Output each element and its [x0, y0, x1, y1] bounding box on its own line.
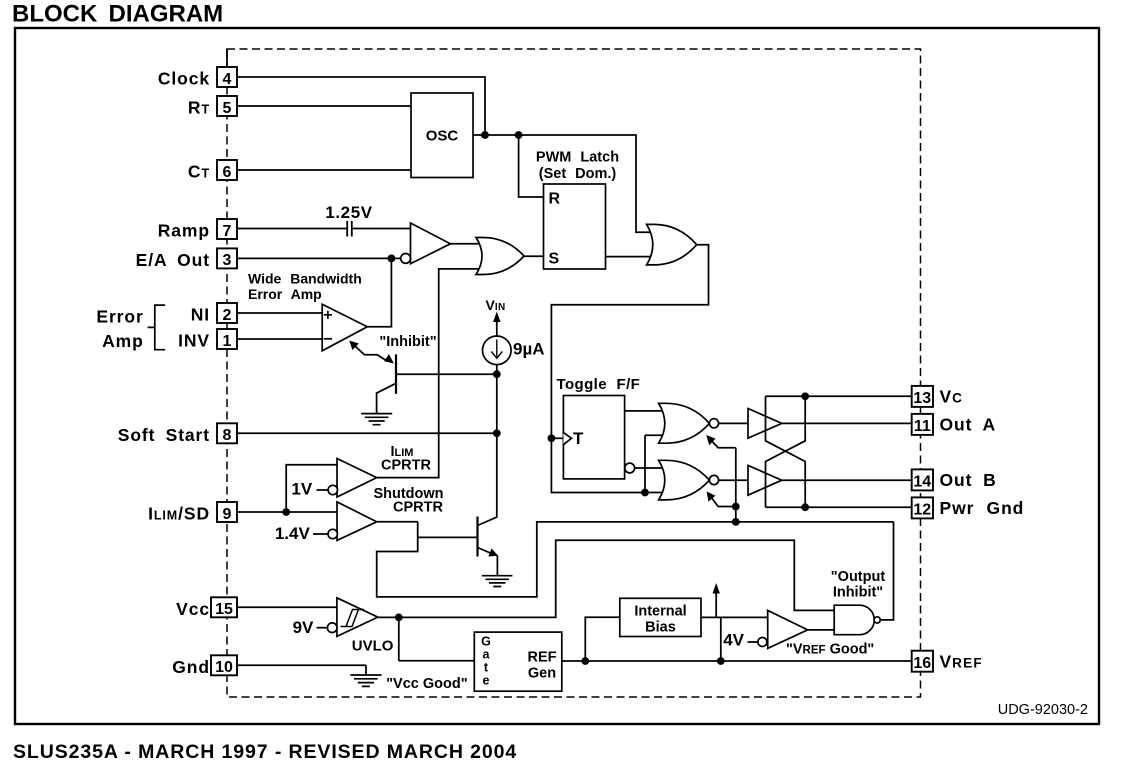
svg-text:Bias: Bias — [645, 620, 676, 636]
svg-text:4: 4 — [223, 71, 232, 88]
svg-text:e: e — [483, 674, 490, 688]
svg-text:Inhibit": Inhibit" — [833, 585, 883, 601]
svg-text:9V: 9V — [293, 618, 314, 637]
svg-text:Amp: Amp — [102, 331, 144, 351]
svg-text:9: 9 — [223, 506, 232, 523]
svg-text:1: 1 — [223, 333, 232, 350]
svg-text:CT: CT — [188, 162, 210, 182]
svg-text:NI: NI — [191, 305, 210, 325]
svg-text:1V: 1V — [291, 480, 312, 499]
svg-text:INV: INV — [178, 331, 210, 351]
svg-text:REF: REF — [528, 650, 557, 666]
svg-text:13: 13 — [913, 390, 931, 407]
svg-text:UVLO: UVLO — [352, 638, 394, 655]
svg-text:Out B: Out B — [940, 470, 997, 490]
svg-text:G: G — [481, 635, 491, 649]
svg-text:UDG-92030-2: UDG-92030-2 — [998, 702, 1088, 718]
svg-text:SLUS235A - MARCH 1997 - REVISE: SLUS235A - MARCH 1997 - REVISED MARCH 20… — [13, 741, 517, 763]
svg-text:T: T — [573, 429, 584, 448]
svg-text:6: 6 — [223, 164, 232, 181]
svg-text:E/A Out: E/A Out — [136, 250, 210, 270]
svg-text:R: R — [549, 191, 561, 208]
svg-text:"VREF Good": "VREF Good" — [786, 642, 874, 658]
svg-text:VC: VC — [940, 387, 963, 407]
svg-text:CPRTR: CPRTR — [381, 458, 431, 474]
svg-text:CPRTR: CPRTR — [393, 500, 443, 516]
svg-text:15: 15 — [215, 601, 233, 618]
svg-text:Soft Start: Soft Start — [118, 425, 210, 445]
svg-text:Error: Error — [96, 307, 143, 327]
svg-text:Toggle F/F: Toggle F/F — [557, 376, 641, 393]
svg-text:OSC: OSC — [426, 128, 459, 145]
svg-text:Pwr Gnd: Pwr Gnd — [940, 498, 1025, 518]
svg-text:Internal: Internal — [634, 604, 686, 620]
svg-text:Clock: Clock — [158, 69, 210, 89]
svg-text:RT: RT — [188, 98, 210, 118]
svg-text:(Set Dom.): (Set Dom.) — [539, 166, 617, 182]
svg-text:Vcc: Vcc — [176, 599, 210, 619]
svg-text:"Inhibit": "Inhibit" — [379, 334, 436, 350]
svg-text:1.4V: 1.4V — [275, 524, 311, 543]
svg-text:3: 3 — [223, 252, 232, 269]
svg-text:BLOCK DIAGRAM: BLOCK DIAGRAM — [12, 1, 223, 28]
svg-text:5: 5 — [223, 100, 232, 117]
svg-text:1.25V: 1.25V — [325, 203, 372, 222]
svg-text:12: 12 — [913, 502, 931, 519]
svg-text:VREF: VREF — [940, 652, 983, 672]
svg-text:S: S — [549, 251, 560, 268]
svg-text:ILIM/SD: ILIM/SD — [148, 504, 210, 524]
svg-text:a: a — [483, 648, 491, 662]
svg-text:Ramp: Ramp — [158, 221, 210, 241]
svg-text:2: 2 — [223, 307, 232, 324]
svg-text:16: 16 — [913, 655, 931, 672]
svg-text:Out A: Out A — [940, 415, 996, 435]
svg-text:Wide Bandwidth: Wide Bandwidth — [248, 271, 362, 287]
svg-text:11: 11 — [914, 418, 931, 435]
svg-text:VIN: VIN — [486, 297, 506, 313]
svg-text:9µA: 9µA — [513, 340, 545, 359]
svg-text:PWM Latch: PWM Latch — [536, 150, 619, 166]
svg-text:4V: 4V — [723, 631, 744, 650]
svg-text:14: 14 — [913, 474, 931, 491]
svg-text:Error Amp: Error Amp — [248, 286, 322, 302]
svg-text:10: 10 — [215, 659, 233, 676]
svg-text:Gnd: Gnd — [172, 657, 210, 677]
svg-text:Gen: Gen — [528, 666, 556, 682]
svg-text:"Output: "Output — [831, 569, 886, 585]
svg-text:"Vcc Good": "Vcc Good" — [386, 676, 467, 692]
svg-text:7: 7 — [223, 223, 232, 240]
svg-text:8: 8 — [223, 427, 232, 444]
